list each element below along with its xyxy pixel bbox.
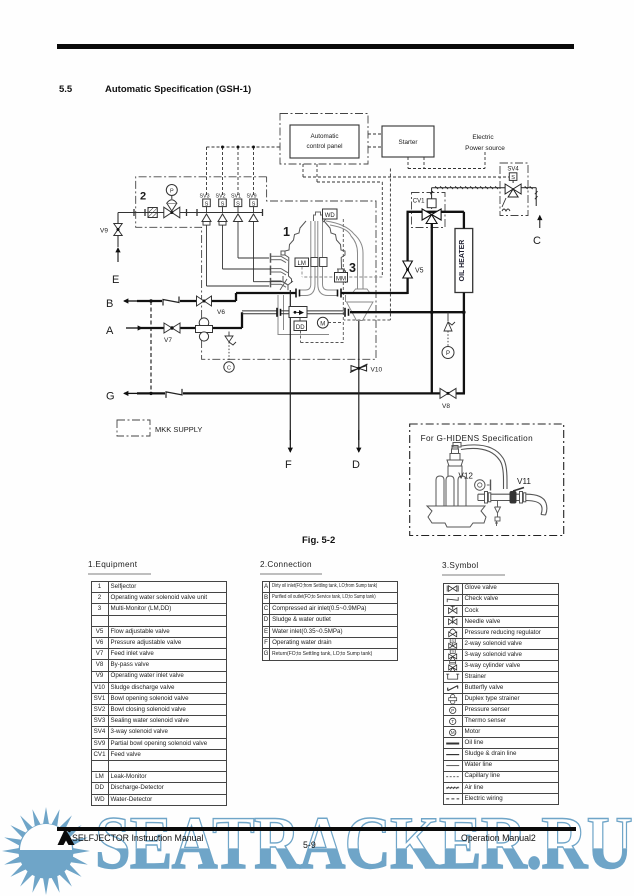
svg-text:A: A bbox=[106, 325, 114, 337]
svg-text:P: P bbox=[451, 708, 454, 713]
svg-text:C: C bbox=[533, 235, 541, 247]
svg-text:LM: LM bbox=[298, 261, 306, 267]
svg-text:S: S bbox=[451, 648, 454, 653]
svg-text:1: 1 bbox=[283, 225, 290, 239]
svg-text:OIL HEATER: OIL HEATER bbox=[459, 240, 466, 282]
svg-text:C: C bbox=[227, 366, 231, 372]
svg-text:Electric: Electric bbox=[472, 134, 494, 141]
svg-text:S: S bbox=[511, 175, 515, 181]
svg-text:G: G bbox=[106, 391, 115, 403]
svg-text:WD: WD bbox=[325, 213, 336, 219]
svg-text:S: S bbox=[221, 201, 225, 207]
svg-text:V9: V9 bbox=[100, 228, 108, 235]
svg-text:S: S bbox=[252, 201, 256, 207]
svg-text:P: P bbox=[446, 351, 450, 357]
svg-text:P: P bbox=[170, 189, 174, 195]
svg-text:S: S bbox=[205, 201, 209, 207]
svg-text:Starter: Starter bbox=[399, 139, 418, 146]
svg-text:M: M bbox=[320, 321, 325, 327]
svg-text:E: E bbox=[112, 274, 119, 286]
svg-text:V12: V12 bbox=[458, 472, 473, 481]
svg-text:control panel: control panel bbox=[306, 143, 342, 150]
svg-text:V11: V11 bbox=[517, 477, 531, 486]
svg-text:DD: DD bbox=[296, 325, 305, 331]
svg-text:2: 2 bbox=[140, 191, 146, 203]
svg-text:For G-HIDENS Specification: For G-HIDENS Specification bbox=[421, 434, 533, 443]
svg-text:M: M bbox=[450, 730, 454, 735]
svg-text:CV1: CV1 bbox=[413, 199, 425, 205]
svg-text:S: S bbox=[236, 201, 240, 207]
svg-text:D: D bbox=[352, 459, 360, 471]
svg-text:MM: MM bbox=[336, 276, 346, 282]
svg-text:V8: V8 bbox=[442, 403, 450, 410]
svg-text:3: 3 bbox=[349, 261, 356, 275]
svg-text:V5: V5 bbox=[415, 268, 424, 275]
svg-text:V10: V10 bbox=[371, 367, 383, 374]
svg-text:S: S bbox=[451, 638, 454, 643]
svg-text:SV4: SV4 bbox=[507, 167, 519, 173]
svg-text:V7: V7 bbox=[164, 337, 172, 344]
svg-text:V6: V6 bbox=[217, 309, 225, 316]
svg-text:MKK SUPPLY: MKK SUPPLY bbox=[155, 425, 202, 434]
svg-text:Power source: Power source bbox=[465, 145, 505, 152]
svg-text:F: F bbox=[285, 459, 292, 471]
svg-text:Automatic: Automatic bbox=[311, 133, 339, 140]
svg-text:B: B bbox=[106, 298, 113, 310]
svg-text:T: T bbox=[451, 719, 454, 724]
